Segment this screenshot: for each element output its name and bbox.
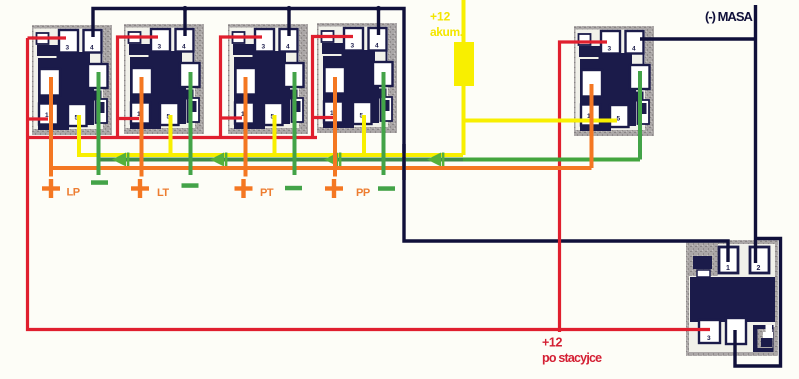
wire yellow below fuse (462, 86, 466, 155)
junction dot node A (182, 6, 187, 11)
wire red K1 bottom pad (28, 117, 49, 120)
wire green K1 minus (97, 72, 101, 175)
svg-text:akum.: akum. (430, 25, 463, 39)
wire yellow bus (79, 115, 463, 155)
wire navy stub K2 pin 4 (183, 9, 186, 37)
minus symbol LP (91, 180, 108, 185)
arrow 3 (324, 153, 341, 167)
arrow 1 (112, 153, 129, 167)
svg-text:LP: LP (67, 187, 80, 199)
svg-text:po stacyjce: po stacyjce (542, 351, 602, 365)
plus symbol LP (42, 179, 60, 198)
wire red +12 main left vertical and bottom bus (28, 38, 711, 330)
arrow 2 (210, 153, 227, 167)
svg-text:+12: +12 (542, 336, 562, 350)
minus symbol PP (378, 186, 395, 191)
plus symbol LT (131, 179, 149, 198)
arrow 4 (427, 153, 444, 167)
wire navy K5 pin 4 to MASA (640, 37, 756, 40)
wire red K2 loop (118, 37, 159, 138)
wire yellow K3 pin 5 (273, 115, 277, 156)
svg-text:+12: +12 (430, 10, 451, 24)
wire red K3 loop (221, 37, 263, 138)
wire orange K5 riser (590, 84, 594, 168)
svg-text:(-) MASA: (-) MASA (705, 9, 753, 24)
junction dot node B (286, 6, 291, 11)
wire red K1 pin 3 (28, 36, 67, 39)
svg-text:PT: PT (260, 187, 274, 199)
plus symbol PP (325, 179, 343, 198)
svg-text:3: 3 (707, 335, 711, 342)
svg-text:2: 2 (757, 265, 761, 272)
minus symbol PT (285, 186, 302, 191)
wire yellow K4 pin 5 (362, 115, 366, 156)
flasher module K6 (686, 240, 778, 356)
wire red K5 pin 3 to +12 po stacyjce (560, 42, 608, 332)
wire yellow branch to K5 pin 5 (464, 119, 618, 123)
plus symbol PT (235, 179, 253, 198)
wire green K5 riser (638, 71, 642, 160)
relay module K3 (PT) (228, 24, 308, 134)
wire navy MASA vertical to flasher pin 2 (754, 5, 757, 263)
wire orange K2 plus (140, 77, 144, 177)
relay module K5 (574, 26, 654, 136)
relay module K4 (PP) (317, 23, 397, 133)
fuse F1 (454, 42, 474, 86)
wire yellow +12 akum feed (462, 0, 466, 44)
wire orange K4 plus (333, 77, 337, 177)
junction dot node C (376, 6, 381, 11)
wire green K4 minus (382, 72, 386, 175)
minus symbol LT (182, 183, 199, 188)
svg-text:LT: LT (157, 187, 169, 199)
wire navy stub K3 pin 4 (287, 9, 290, 37)
svg-text:PP: PP (356, 187, 370, 199)
wire green bus (100, 158, 463, 162)
wire orange K1 plus (49, 77, 53, 177)
wire navy stub K4 pin 4 (377, 9, 380, 36)
wire green K3 minus (293, 72, 297, 175)
wire red K4 loop (313, 37, 354, 138)
wire orange bus (51, 166, 592, 170)
wire yellow K2 pin 5 (169, 115, 173, 156)
relay module K1 (LP) (32, 25, 112, 135)
wire navy crossing patch (402, 144, 405, 180)
wire red feed bus (28, 136, 318, 139)
relay module K2 (LT) (124, 24, 204, 134)
wire navy MASA branch around flasher (735, 239, 781, 367)
svg-text:1: 1 (726, 265, 730, 272)
wire green K2 minus (189, 72, 193, 175)
wire navy bus from pins 4 to flasher pin 1 (93, 9, 728, 263)
wire orange K3 plus (244, 77, 248, 177)
